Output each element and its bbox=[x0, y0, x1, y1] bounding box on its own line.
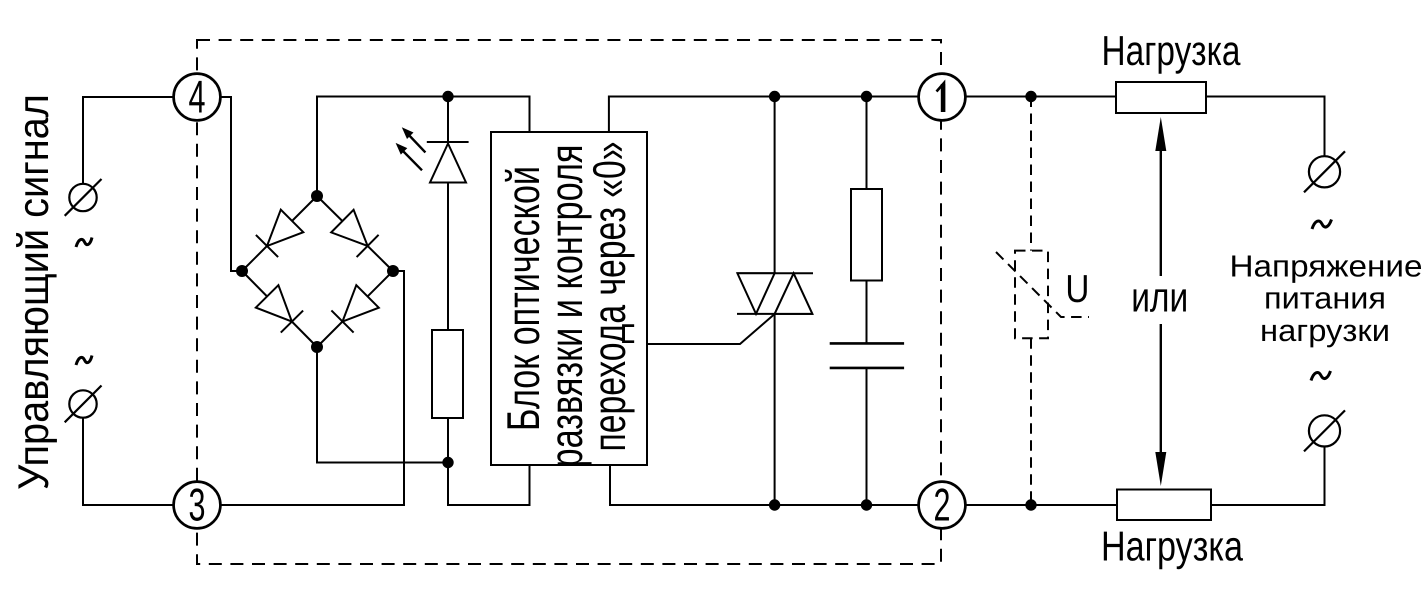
svg-text:или: или bbox=[1131, 274, 1188, 321]
AC terminal top-right (circle-slash) bbox=[1304, 151, 1345, 192]
diode VD4 (lower right) bbox=[331, 285, 378, 332]
OR arrow shaft lower bbox=[1160, 324, 1162, 473]
junction dot varistor top bbox=[1025, 91, 1036, 102]
wire negative rail hook to box bottom-left bbox=[448, 463, 530, 506]
LED cathode bar bbox=[427, 141, 469, 143]
terminal circle 2 bbox=[919, 479, 966, 531]
load 1 resistor body bbox=[1116, 82, 1206, 113]
wire terminal 1 to load 1 bbox=[965, 96, 1116, 98]
junction dot triac bottom bbox=[769, 499, 780, 510]
triac VS1 bbox=[737, 273, 813, 314]
wire load 1 to AC terminal top-right bbox=[1206, 97, 1325, 157]
AC terminal bottom-right (circle-slash) bbox=[1304, 410, 1345, 451]
wire LED to resistor R1 bbox=[447, 183, 449, 331]
snubber capacitor C1 bbox=[830, 343, 904, 368]
wire snubber capacitor to bottom rail bbox=[866, 368, 868, 505]
junction dot LED branch top bbox=[442, 91, 453, 102]
bridge node top junction bbox=[311, 190, 323, 202]
junction dot snubber bottom bbox=[861, 499, 872, 510]
bridge node bottom junction bbox=[311, 341, 323, 353]
junction dot LED branch bottom bbox=[442, 457, 453, 468]
input terminal A (circle-slash) bbox=[65, 179, 102, 216]
varistor dashed wire top bbox=[1030, 97, 1032, 251]
svg-text:2: 2 bbox=[934, 479, 951, 531]
bridge node right junction bbox=[387, 265, 399, 277]
varistor diagonal stroke bbox=[996, 252, 1089, 317]
LED triangle bbox=[430, 144, 466, 183]
wire positive rail to optocoupler box top-left bbox=[448, 97, 530, 133]
LED light arrow 1 bbox=[402, 127, 426, 152]
svg-text:Напряжение: Напряжение bbox=[1230, 250, 1423, 284]
junction dot snubber top bbox=[861, 91, 872, 102]
wire resistor R1 to negative rail bbox=[447, 418, 449, 463]
svg-text:3: 3 bbox=[189, 479, 206, 531]
resistor R1 bbox=[432, 330, 463, 418]
terminal circle 1 bbox=[919, 74, 966, 121]
OR arrow head up bbox=[1155, 117, 1166, 151]
wire triac cathode to bottom rail bbox=[774, 314, 776, 505]
wire AC terminal bottom-right to load 2 bbox=[1211, 447, 1325, 505]
wire box bottom-right to output bottom rail bbox=[610, 465, 918, 505]
wire bridge top node to positive rail bbox=[317, 97, 448, 197]
junction dot varistor bottom bbox=[1025, 499, 1036, 510]
wire terminal 4 to bridge left node bbox=[220, 97, 242, 271]
wire terminal 3 to bridge right node bbox=[220, 271, 404, 505]
input terminal B (circle-slash) bbox=[65, 386, 102, 423]
junction dot triac top bbox=[769, 91, 780, 102]
optocoupler block U1 bbox=[491, 132, 647, 465]
load 2 resistor body bbox=[1117, 490, 1211, 521]
wire terminal 2 to load 2 bbox=[965, 504, 1117, 506]
diode VD3 (lower left) bbox=[256, 285, 303, 332]
tilde AC mark upper-left bbox=[76, 238, 92, 248]
svg-text:Управляющий сигнал: Управляющий сигнал bbox=[10, 94, 58, 490]
svg-text:перехода через «0»: перехода через «0» bbox=[583, 142, 635, 452]
svg-text:Нагрузка: Нагрузка bbox=[1101, 523, 1244, 570]
LED branch wire upper bbox=[447, 97, 449, 143]
svg-text:питания: питания bbox=[1264, 282, 1386, 316]
OR arrow head down bbox=[1155, 452, 1166, 486]
bridge node left junction bbox=[236, 265, 248, 277]
terminal circle 3 bbox=[174, 479, 221, 531]
wire from input terminal B to terminal 3 bbox=[83, 418, 174, 505]
wire box top-right to output rail bbox=[609, 97, 918, 133]
dashed enclosure of solid-state relay bbox=[197, 40, 941, 564]
svg-text:4: 4 bbox=[189, 71, 206, 123]
varistor dashed wire bottom bbox=[1030, 338, 1032, 505]
wire snubber resistor to capacitor bbox=[866, 281, 868, 344]
svg-text:U: U bbox=[1065, 268, 1089, 311]
svg-text:Нагрузка: Нагрузка bbox=[1102, 27, 1242, 74]
gate wire from box to triac bbox=[647, 314, 775, 344]
wire bridge bottom node to negative rail bbox=[317, 347, 448, 463]
wire triac anode to top rail bbox=[774, 97, 776, 274]
wire from input terminal A to terminal 4 bbox=[83, 97, 174, 184]
varistor RU1 (dashed body) bbox=[1015, 251, 1048, 339]
diode VD2 (upper right) bbox=[331, 210, 378, 257]
terminal circle 4 bbox=[174, 71, 221, 123]
diode bridge edges bbox=[242, 196, 393, 347]
tilde AC mark right-bottom bbox=[1311, 371, 1331, 381]
tilde AC mark lower-left bbox=[76, 356, 92, 366]
svg-text:нагрузки: нагрузки bbox=[1260, 314, 1390, 348]
LED light arrow 2 bbox=[396, 143, 422, 170]
OR arrow shaft upper bbox=[1160, 130, 1162, 276]
diode VD1 (upper left) bbox=[256, 210, 303, 257]
wire snubber top bbox=[866, 97, 868, 190]
tilde AC mark right-top bbox=[1312, 220, 1332, 230]
snubber resistor R2 bbox=[851, 189, 882, 281]
